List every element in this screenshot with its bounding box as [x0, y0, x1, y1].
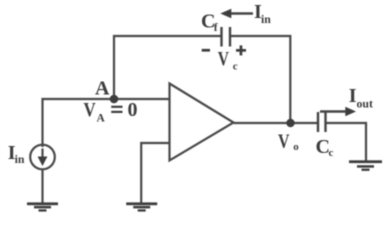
label Iin (top right): [254, 1, 271, 26]
wire: below current source: [41, 169, 43, 203]
svg-text:V: V: [278, 130, 290, 152]
svg-text:o: o: [293, 141, 299, 153]
svg-text:V: V: [218, 48, 230, 70]
node A junction dot: [110, 95, 119, 104]
label Cf: [201, 11, 218, 34]
wire: feedback top-right segment down to output node: [231, 36, 291, 123]
label Iin (left): [8, 142, 25, 166]
op-amp U1: [170, 84, 234, 161]
wire: op-amp output to capacitor Cc: [234, 122, 318, 124]
plus sign (Vc polarity): [236, 45, 246, 55]
wire: current source up to node A and to op-amp minus input: [43, 99, 170, 147]
wire: after Cc right then down to ground: [326, 123, 366, 161]
svg-text:A: A: [95, 78, 110, 100]
label Iout: [349, 85, 373, 111]
svg-text:in: in: [261, 12, 271, 26]
label VA = 0: [84, 99, 138, 125]
wire: feedback left riser and top-left segment: [114, 36, 221, 99]
svg-text:0: 0: [128, 99, 138, 121]
ground (below current source): [27, 202, 58, 211]
ground (output, right): [349, 160, 382, 171]
label Vc: [218, 48, 238, 73]
ground (op-amp plus input): [126, 202, 157, 211]
svg-text:A: A: [97, 113, 106, 125]
minus sign (Vc polarity): [202, 49, 210, 52]
svg-text:c: c: [233, 61, 238, 73]
current arrow Iout (pointing right): [320, 107, 356, 117]
label Cc: [316, 136, 334, 159]
svg-text:out: out: [357, 96, 373, 110]
svg-text:V: V: [84, 99, 97, 121]
svg-text:in: in: [15, 152, 25, 166]
node Vo junction dot: [286, 119, 294, 127]
wire: op-amp plus input: [141, 143, 169, 203]
svg-text:f: f: [214, 22, 218, 34]
current source Iin: [30, 145, 55, 170]
current arrow Iin (top, pointing left): [220, 9, 253, 19]
label Vo: [278, 130, 299, 153]
capacitor Cf plates: [222, 27, 231, 47]
capacitor Cc plates: [318, 112, 326, 132]
svg-text:c: c: [329, 147, 334, 159]
